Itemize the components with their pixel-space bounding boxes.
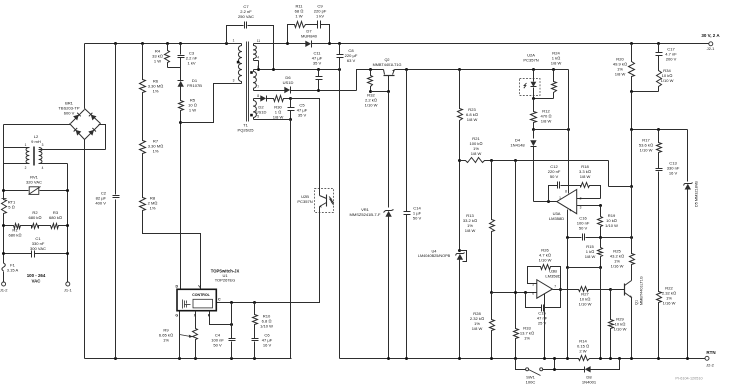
svg-text:1N4001: 1N4001 (582, 380, 597, 385)
svg-text:11: 11 (257, 39, 261, 43)
resistor R8 (140, 196, 158, 213)
svg-text:RTN: RTN (706, 350, 715, 355)
wire R20-R34 link (630, 90, 659, 130)
thermistor RT1 (2, 199, 17, 216)
svg-text:320 VAC: 320 VAC (26, 180, 42, 185)
svg-text:1%: 1% (524, 336, 530, 341)
optocoupler U2B phototransistor (297, 189, 333, 213)
svg-text:3: 3 (233, 79, 235, 83)
svg-text:MUR840: MUR840 (301, 34, 318, 39)
resistor R26 (539, 248, 561, 290)
svg-text:8: 8 (257, 94, 259, 98)
svg-text:300 VAC: 300 VAC (30, 246, 46, 251)
svg-text:680 kΩ: 680 kΩ (8, 232, 21, 237)
wire R15 junction row (568, 267, 601, 269)
capacitor C17 (656, 44, 678, 70)
svg-text:4: 4 (257, 56, 259, 60)
wire primary top rail (85, 42, 242, 45)
svg-text:LM4040B25/NOPB: LM4040B25/NOPB (418, 254, 451, 258)
svg-text:400 V: 400 V (95, 201, 106, 206)
svg-text:1 W: 1 W (154, 59, 161, 64)
thermal switch SW1 (516, 359, 585, 385)
svg-text:1%: 1% (150, 206, 156, 211)
svg-text:MMSZ5241B-7-F: MMSZ5241B-7-F (349, 212, 381, 217)
wire R8 to V pin (143, 213, 201, 290)
wire primary bottom rail (85, 357, 292, 360)
svg-text:4: 4 (570, 209, 572, 213)
svg-text:2 W: 2 W (579, 349, 586, 354)
resistor R1 (4, 224, 30, 238)
svg-text:PI-6104-120510: PI-6104-120510 (675, 377, 702, 381)
svg-text:J2-1: J2-1 (707, 46, 716, 51)
capacitor C8 (337, 44, 358, 70)
svg-text:3.15 A: 3.15 A (7, 268, 19, 273)
wire U3B output (553, 289, 578, 291)
svg-text:6: 6 (532, 292, 534, 296)
svg-text:50 V: 50 V (579, 226, 588, 231)
svg-text:Q2: Q2 (384, 58, 389, 62)
wire bridge negative output (84, 140, 86, 359)
wire aux rail left segment (357, 68, 384, 71)
resistor R7 (140, 139, 164, 156)
wire aux step up (357, 70, 384, 91)
svg-text:1%: 1% (153, 89, 159, 94)
svg-text:1/10 W: 1/10 W (614, 327, 627, 332)
svg-text:CONTROL: CONTROL (192, 293, 211, 297)
wire U3A output (534, 200, 557, 203)
svg-text:1/10 W: 1/10 W (640, 148, 653, 153)
terminal J1-1 (64, 282, 73, 292)
wire F pin (210, 311, 234, 327)
resistor R6 (140, 44, 164, 95)
svg-text:5 Ω: 5 Ω (8, 205, 14, 210)
svg-text:250 VAC: 250 VAC (238, 14, 254, 19)
resistor R25 (610, 238, 635, 281)
svg-text:1/10 W: 1/10 W (605, 223, 618, 228)
svg-text:1: 1 (233, 39, 235, 43)
capacitor C13 (656, 154, 680, 291)
wire secondary tap (256, 61, 342, 72)
resistor R20 (613, 44, 635, 92)
resistor R30 (272, 96, 291, 120)
resistor R28 (470, 293, 495, 359)
capacitor C5 (288, 97, 308, 121)
wire RTN rail (340, 357, 706, 360)
wire C8 column to RTN rail (339, 70, 341, 359)
svg-text:Q1: Q1 (635, 300, 639, 305)
svg-text:PC357N: PC357N (523, 58, 538, 63)
svg-text:7: 7 (554, 285, 556, 289)
resistor R2 (28, 210, 49, 229)
svg-text:1/10 W: 1/10 W (365, 103, 378, 108)
wire bridge positive output (84, 44, 86, 109)
wire Q1 emitter (631, 298, 633, 359)
diode D8 (582, 359, 620, 385)
wire drain node (179, 84, 237, 290)
wire divider to reference node (609, 130, 634, 238)
resistor R29 (609, 290, 627, 359)
svg-text:50 V: 50 V (413, 216, 422, 221)
svg-text:1/10 W: 1/10 W (539, 258, 552, 263)
capacitor C11 (312, 51, 323, 91)
wire sense to divider node (608, 161, 610, 187)
resistor R3 (2, 210, 69, 229)
resistor R17 (639, 130, 662, 154)
svg-text:FR107B: FR107B (187, 83, 202, 88)
resistor R19 (598, 206, 619, 238)
svg-text:MMBT4401LT1G: MMBT4401LT1G (373, 63, 402, 67)
svg-text:50 V: 50 V (550, 174, 559, 179)
wire ground reference row (566, 236, 633, 239)
label AC input rating (27, 273, 46, 283)
resistor R13 (463, 161, 495, 234)
wire optocoupler emitter to CONTROL pin (217, 213, 320, 305)
svg-text:200 V: 200 V (666, 57, 677, 62)
resistor R9 with arrow (159, 311, 198, 359)
svg-text:5: 5 (257, 114, 259, 118)
svg-text:LM358D: LM358D (545, 274, 560, 279)
wire aux rail right segment (395, 68, 569, 71)
svg-text:1/8 W: 1/8 W (541, 119, 552, 124)
wire U3B inverting feedback (528, 267, 540, 284)
svg-text:1/8 W: 1/8 W (467, 117, 478, 122)
capacitor C12 (548, 164, 579, 202)
optocoupler U2A LED (520, 53, 541, 99)
svg-text:2: 2 (580, 197, 582, 201)
capacitor C7 Y-cap (227, 4, 274, 70)
op-amp U3B (532, 269, 560, 299)
svg-text:1N4148: 1N4148 (510, 142, 525, 147)
svg-text:25 V: 25 V (538, 321, 547, 326)
capacitor C15 (526, 288, 563, 326)
svg-text:4: 4 (42, 166, 44, 170)
resistor R4 (152, 44, 169, 68)
shunt reference U4 (418, 249, 467, 359)
wire U3A noninverting input (577, 204, 603, 207)
svg-text:PQ26/25: PQ26/25 (238, 128, 255, 133)
capacitor C9 snubber (307, 4, 330, 44)
wire R6-R7 (142, 95, 144, 140)
svg-text:63 V: 63 V (347, 58, 356, 63)
transformer T1 (233, 39, 261, 133)
label drawing number (675, 377, 702, 381)
wire R13 to junction (490, 234, 493, 295)
svg-text:1/8 W: 1/8 W (471, 151, 482, 156)
resistor R23 (458, 70, 478, 123)
svg-text:100 - 264: 100 - 264 (27, 273, 46, 278)
wire left input vertical (neutral) (3, 216, 5, 258)
varistor RV1 (2, 175, 69, 195)
wire bias positive to optocoupler (291, 99, 320, 189)
svg-text:LM358D: LM358D (549, 216, 564, 221)
diode D2 (256, 95, 272, 114)
resistor R33 (514, 326, 535, 359)
resistor R22 (657, 286, 677, 359)
wire reference column (458, 122, 461, 251)
svg-text:50 V: 50 V (213, 343, 222, 348)
svg-text:2: 2 (25, 166, 27, 170)
resistor R24 (551, 51, 562, 99)
wire Q2 base node (371, 90, 391, 208)
capacitor C4 (211, 303, 235, 359)
diode D4 (510, 130, 536, 202)
svg-text:D: D (175, 284, 178, 288)
svg-text:1/10 W: 1/10 W (661, 78, 674, 83)
wire secondary top rail (256, 42, 709, 45)
svg-text:1/8 W: 1/8 W (551, 61, 562, 66)
resistor R15 (585, 238, 603, 359)
resistor R27 (578, 287, 613, 307)
svg-text:1 W: 1 W (189, 108, 196, 113)
zener VR1 (349, 207, 393, 359)
svg-text:J1-1: J1-1 (64, 287, 73, 292)
svg-text:C: C (218, 298, 221, 302)
wire Q1 base (611, 289, 625, 291)
wire bridge AC inputs (4, 125, 106, 150)
wire pin4 column to RTN (566, 238, 569, 359)
op-amp U3A (549, 189, 582, 221)
svg-text:1/8 W: 1/8 W (472, 326, 483, 331)
svg-text:U4: U4 (432, 249, 438, 254)
resistor R32 (365, 70, 378, 108)
svg-text:1%: 1% (153, 149, 159, 154)
svg-text:600 V: 600 V (64, 111, 75, 116)
svg-text:680 kΩ: 680 kΩ (49, 215, 62, 220)
svg-text:7: 7 (257, 85, 259, 89)
terminal J2-1 output (701, 33, 720, 51)
resistor R21 (460, 136, 609, 163)
svg-text:1: 1 (25, 143, 27, 147)
svg-text:9 mH: 9 mH (31, 139, 41, 144)
capacitor C6 (252, 327, 273, 359)
terminal J1-2 (0, 282, 8, 292)
wire bias return (256, 120, 291, 359)
svg-text:1: 1 (559, 196, 561, 200)
svg-text:1/16 W: 1/16 W (663, 301, 676, 306)
svg-text:16 V: 16 V (669, 171, 678, 176)
transistor Q1 (625, 276, 644, 305)
svg-text:D5 MM3Z18VB: D5 MM3Z18VB (695, 181, 699, 207)
fuse F1 (2, 258, 19, 283)
diode D6 (256, 75, 357, 94)
zener D5 (684, 130, 699, 359)
svg-text:1 kV: 1 kV (187, 61, 195, 66)
wire U3A supply pin 4 (567, 210, 569, 238)
wire left input vertical upper (3, 125, 5, 199)
inductor L2 common-mode choke (4, 134, 106, 170)
resistor R11 snubber (288, 4, 307, 44)
svg-text:1/8 W: 1/8 W (580, 174, 591, 179)
svg-text:J1-2: J1-2 (0, 287, 8, 292)
svg-text:TOP267EG: TOP267EG (215, 277, 236, 282)
capacitor C1 (2, 236, 69, 258)
svg-text:1/8 W: 1/8 W (273, 115, 284, 120)
wire G pin to ground (179, 311, 181, 359)
capacitor C3 (178, 44, 198, 68)
wire op-amp supply branch (532, 70, 570, 194)
wire U3B input row (492, 291, 537, 294)
svg-text:1/10 W: 1/10 W (260, 324, 273, 329)
svg-text:1 W: 1 W (295, 14, 302, 19)
capacitor C14 (404, 70, 422, 359)
transistor Q2 (373, 58, 402, 92)
diode D1 (178, 78, 203, 100)
svg-text:16 V: 16 V (263, 343, 272, 348)
wire U3A inverting input (577, 198, 601, 200)
svg-text:MMBT4401LT1G: MMBT4401LT1G (639, 276, 643, 305)
svg-text:3: 3 (42, 143, 44, 147)
capacitor C16 (577, 216, 590, 241)
svg-text:1/16 W: 1/16 W (611, 264, 624, 269)
bridge rectifier BR1 (58, 101, 100, 140)
svg-text:30 V, 2 A: 30 V, 2 A (701, 33, 720, 38)
svg-text:35 V: 35 V (298, 113, 307, 118)
svg-text:100C: 100C (526, 380, 536, 385)
svg-text:VAC: VAC (32, 278, 42, 283)
diode D7 (301, 29, 318, 48)
terminal J2-2 RTN (705, 350, 716, 368)
wire R7-R8 (142, 156, 144, 197)
svg-text:US1D: US1D (256, 110, 267, 115)
svg-text:35 V: 35 V (313, 61, 322, 66)
svg-text:680 kΩ: 680 kΩ (28, 215, 41, 220)
svg-text:1/8 W: 1/8 W (465, 228, 476, 233)
svg-text:G: G (175, 314, 178, 318)
svg-text:1%: 1% (163, 338, 169, 343)
capacitor C2 bulk (95, 44, 119, 359)
wire LED cathode node (532, 97, 554, 100)
svg-text:PC357N: PC357N (297, 199, 312, 204)
wire divider node (630, 128, 688, 131)
resistor R10 (253, 303, 274, 329)
svg-text:1/10 W: 1/10 W (579, 302, 592, 307)
svg-text:J2-2: J2-2 (706, 363, 715, 368)
wire right input vertical (67, 164, 69, 283)
resistor R34 (657, 68, 674, 92)
svg-text:US1D: US1D (283, 80, 294, 85)
svg-text:1 kV: 1 kV (316, 14, 324, 19)
resistor R5 (179, 98, 197, 113)
svg-text:1/8 W: 1/8 W (615, 72, 626, 77)
wire SW1-D8 link to rail (553, 357, 556, 371)
wire R33 column (515, 161, 517, 327)
resistor R12 (531, 99, 552, 130)
svg-text:8: 8 (565, 189, 567, 193)
wire clamp bottom (168, 68, 181, 78)
IC U1 TOP267EG (175, 268, 239, 317)
resistor R14 current sense (577, 339, 591, 361)
wire U3B supply pin (544, 294, 546, 359)
svg-text:1/8 W: 1/8 W (585, 254, 596, 259)
resistor R18 (579, 164, 601, 199)
